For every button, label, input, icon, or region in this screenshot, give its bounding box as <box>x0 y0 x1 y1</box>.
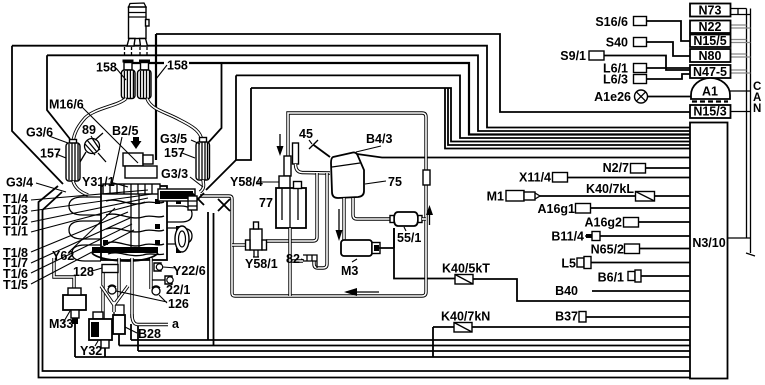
svg-text:B2/5: B2/5 <box>112 124 138 138</box>
svg-text:N3/10: N3/10 <box>692 236 725 250</box>
svg-text:B37: B37 <box>555 310 578 324</box>
svg-text:Y31/1: Y31/1 <box>82 175 115 189</box>
svg-text:128: 128 <box>73 265 94 279</box>
svg-text:M1: M1 <box>487 190 504 204</box>
svg-text:A16g1: A16g1 <box>537 202 575 216</box>
svg-text:N47-5: N47-5 <box>693 65 727 79</box>
svg-text:55/1: 55/1 <box>397 231 421 245</box>
svg-text:S40: S40 <box>606 36 628 50</box>
svg-text:Y62: Y62 <box>52 249 74 263</box>
svg-text:S9/1: S9/1 <box>560 49 586 63</box>
svg-text:B6/1: B6/1 <box>598 271 624 285</box>
svg-text:N65/2: N65/2 <box>591 243 624 257</box>
svg-text:L6/3: L6/3 <box>603 73 628 87</box>
svg-text:K40/7kL: K40/7kL <box>586 182 634 196</box>
svg-text:B11/4: B11/4 <box>551 230 584 244</box>
svg-text:a: a <box>172 317 180 331</box>
svg-text:Y22/6: Y22/6 <box>173 264 206 278</box>
svg-text:B40: B40 <box>555 284 578 298</box>
svg-text:M3: M3 <box>341 264 358 278</box>
svg-text:T1/5: T1/5 <box>3 278 28 292</box>
svg-text:77: 77 <box>259 196 273 210</box>
svg-text:X11/4: X11/4 <box>519 171 551 185</box>
svg-text:Y32: Y32 <box>80 344 102 358</box>
svg-text:N2/7: N2/7 <box>603 161 629 175</box>
svg-text:A1: A1 <box>702 85 718 99</box>
svg-text:A16g2: A16g2 <box>584 216 622 230</box>
svg-text:22/1: 22/1 <box>166 283 190 297</box>
svg-text:B28: B28 <box>138 327 161 341</box>
svg-text:Y58/1: Y58/1 <box>245 257 278 271</box>
svg-text:N15/5: N15/5 <box>693 34 726 48</box>
svg-text:N15/3: N15/3 <box>693 105 726 119</box>
svg-text:N22: N22 <box>699 20 722 34</box>
svg-text:M33: M33 <box>49 317 73 331</box>
svg-text:G3/3: G3/3 <box>161 167 188 181</box>
svg-text:157: 157 <box>40 147 61 161</box>
svg-text:G3/4: G3/4 <box>6 176 33 190</box>
svg-text:M16/6: M16/6 <box>49 98 84 112</box>
svg-text:L5: L5 <box>561 257 576 271</box>
svg-text:K40/7kN: K40/7kN <box>441 310 490 324</box>
svg-text:K40/5kT: K40/5kT <box>442 262 490 276</box>
svg-text:158: 158 <box>167 59 188 73</box>
svg-text:G3/5: G3/5 <box>160 132 187 146</box>
svg-text:S16/6: S16/6 <box>595 15 628 29</box>
svg-text:N80: N80 <box>699 49 722 63</box>
svg-text:158: 158 <box>96 61 117 75</box>
svg-text:A1e26: A1e26 <box>594 90 631 104</box>
svg-text:T1/1: T1/1 <box>3 225 28 239</box>
svg-text:B4/3: B4/3 <box>366 132 392 146</box>
svg-text:N: N <box>753 103 761 115</box>
svg-text:45: 45 <box>299 127 313 141</box>
svg-text:G3/6: G3/6 <box>26 126 53 140</box>
svg-text:N73: N73 <box>699 4 722 18</box>
svg-text:89: 89 <box>82 123 96 137</box>
svg-text:126: 126 <box>168 297 189 311</box>
svg-text:75: 75 <box>388 175 402 189</box>
svg-text:82: 82 <box>286 252 300 266</box>
svg-text:157: 157 <box>164 146 185 160</box>
